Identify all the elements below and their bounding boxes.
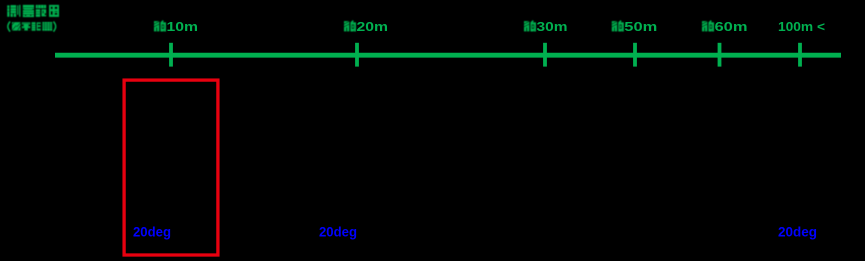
kanji 平: [22, 22, 31, 30]
axis line: [55, 53, 841, 58]
title line 2: ( + kanji blobs + ): [8, 22, 56, 32]
label 約30m: [524, 21, 536, 32]
label 約10m: [154, 21, 166, 32]
svg-text:10m: 10m: [167, 20, 199, 34]
kanji 水: [12, 22, 21, 30]
tick 100m: [798, 43, 802, 67]
(: [8, 22, 10, 32]
svg-text:20deg: 20deg: [133, 224, 171, 239]
label 約50m: [612, 21, 624, 32]
svg-text:20deg: 20deg: [319, 224, 357, 239]
tick 50m: [633, 43, 637, 67]
svg-text:20m: 20m: [357, 20, 389, 34]
svg-text:60m: 60m: [715, 20, 748, 34]
kanji 測: [7, 5, 20, 17]
label 約60m: [702, 21, 714, 32]
): [53, 22, 55, 32]
svg-text:50m: 50m: [624, 20, 657, 34]
kanji 範: [36, 5, 46, 17]
title line 1 kanji blobs: [7, 5, 59, 17]
red highlight box: [124, 80, 218, 255]
svg-text:30m: 30m: [537, 20, 568, 34]
tick 10m: [169, 43, 173, 67]
tick 30m: [543, 43, 547, 67]
svg-text:20deg: 20deg: [778, 224, 817, 239]
kanji 量: [23, 5, 34, 17]
kanji 距: [32, 22, 41, 31]
label 約20m: [344, 21, 356, 32]
svg-text:100m <: 100m <: [778, 20, 825, 34]
kanji 離: [42, 22, 52, 31]
tick 20m: [355, 43, 359, 67]
kanji 囲: [49, 5, 59, 17]
tick 60m: [718, 43, 722, 67]
